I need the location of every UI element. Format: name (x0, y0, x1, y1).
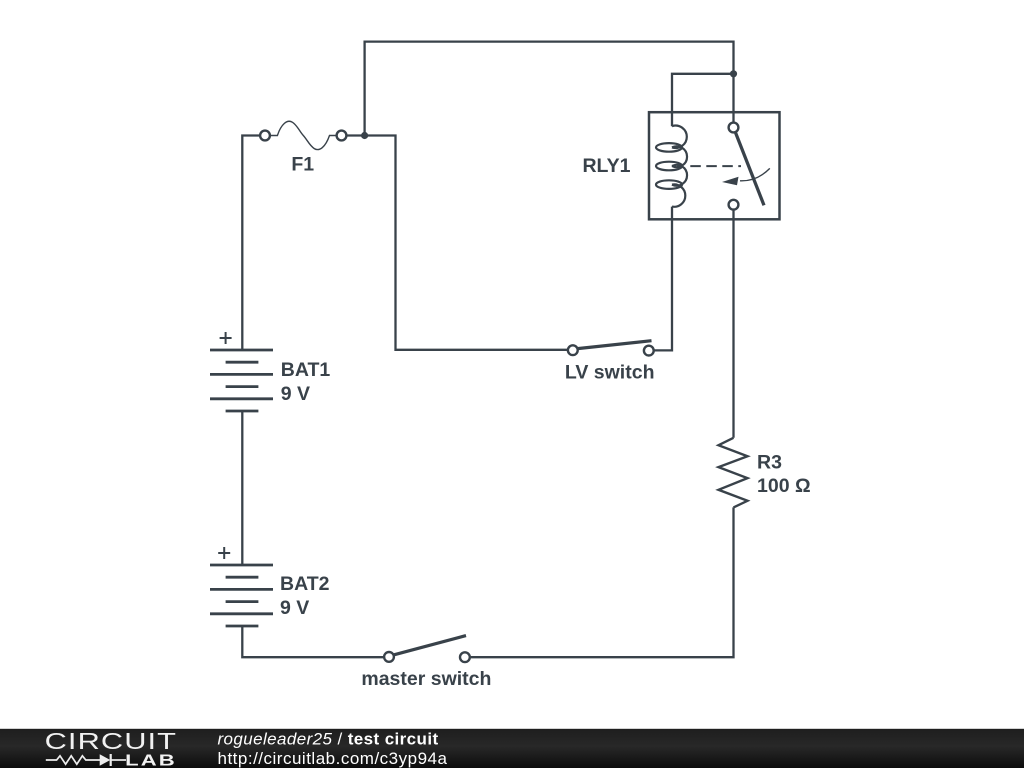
footer bar (0, 729, 1024, 768)
svg-text:BAT1: BAT1 (281, 359, 331, 381)
svg-text:CIRCUIT: CIRCUIT (45, 728, 177, 754)
svg-text:9 V: 9 V (281, 383, 310, 405)
wire: relay coil bottom to LV switch (654, 207, 672, 351)
battery BAT2 plus sign (218, 547, 230, 559)
junction: relay top node (730, 70, 737, 77)
svg-text:9 V: 9 V (280, 597, 309, 619)
CircuitLab logo (45, 728, 177, 768)
wire: BAT1 negative to BAT2 positive (241, 411, 243, 565)
relay RLY1 actuation arrow (740, 168, 770, 180)
relay RLY1 (649, 112, 780, 219)
relay RLY1 coil (656, 126, 687, 207)
svg-text:BAT2: BAT2 (280, 573, 330, 595)
wire: top net from fuse node to relay (365, 42, 734, 136)
relay RLY1 switch contacts (729, 123, 739, 133)
battery BAT1 (210, 350, 273, 411)
svg-text:RLY1: RLY1 (582, 155, 630, 177)
svg-text:master switch: master switch (361, 668, 491, 690)
svg-text:100 Ω: 100 Ω (757, 475, 811, 497)
wire: BAT2 negative to master switch (242, 626, 383, 657)
relay RLY1 box (649, 112, 780, 219)
wire: BAT1 positive lead up and left rail to fuse F1 (242, 136, 259, 351)
battery BAT2 (210, 565, 273, 626)
svg-text:R3: R3 (757, 451, 782, 473)
fuse F1 (260, 121, 346, 149)
relay RLY1 dashed actuator link (690, 165, 741, 167)
wire: relay switch bottom to resistor R3 (732, 210, 734, 438)
wire: relay node down to switch contact (732, 74, 734, 123)
switch LV switch (568, 341, 654, 356)
svg-text:LV switch: LV switch (565, 361, 655, 383)
wire: master switch to resistor R3 bottom (471, 507, 734, 657)
battery BAT1 plus sign (220, 332, 232, 344)
svg-text:http://circuitlab.com/c3yp94a: http://circuitlab.com/c3yp94a (218, 749, 448, 768)
wire: fuse to LV switch (347, 136, 568, 350)
junction: fuse output node (361, 132, 368, 139)
svg-text:rogueleader25 / test circuit: rogueleader25 / test circuit (218, 729, 439, 748)
relay RLY1 switch blade (735, 132, 764, 205)
resistor R3 (719, 438, 748, 508)
switch master switch (384, 636, 470, 663)
svg-text:F1: F1 (291, 154, 314, 176)
svg-text:LAB: LAB (125, 752, 177, 768)
wire: relay node to coil top (672, 74, 734, 126)
